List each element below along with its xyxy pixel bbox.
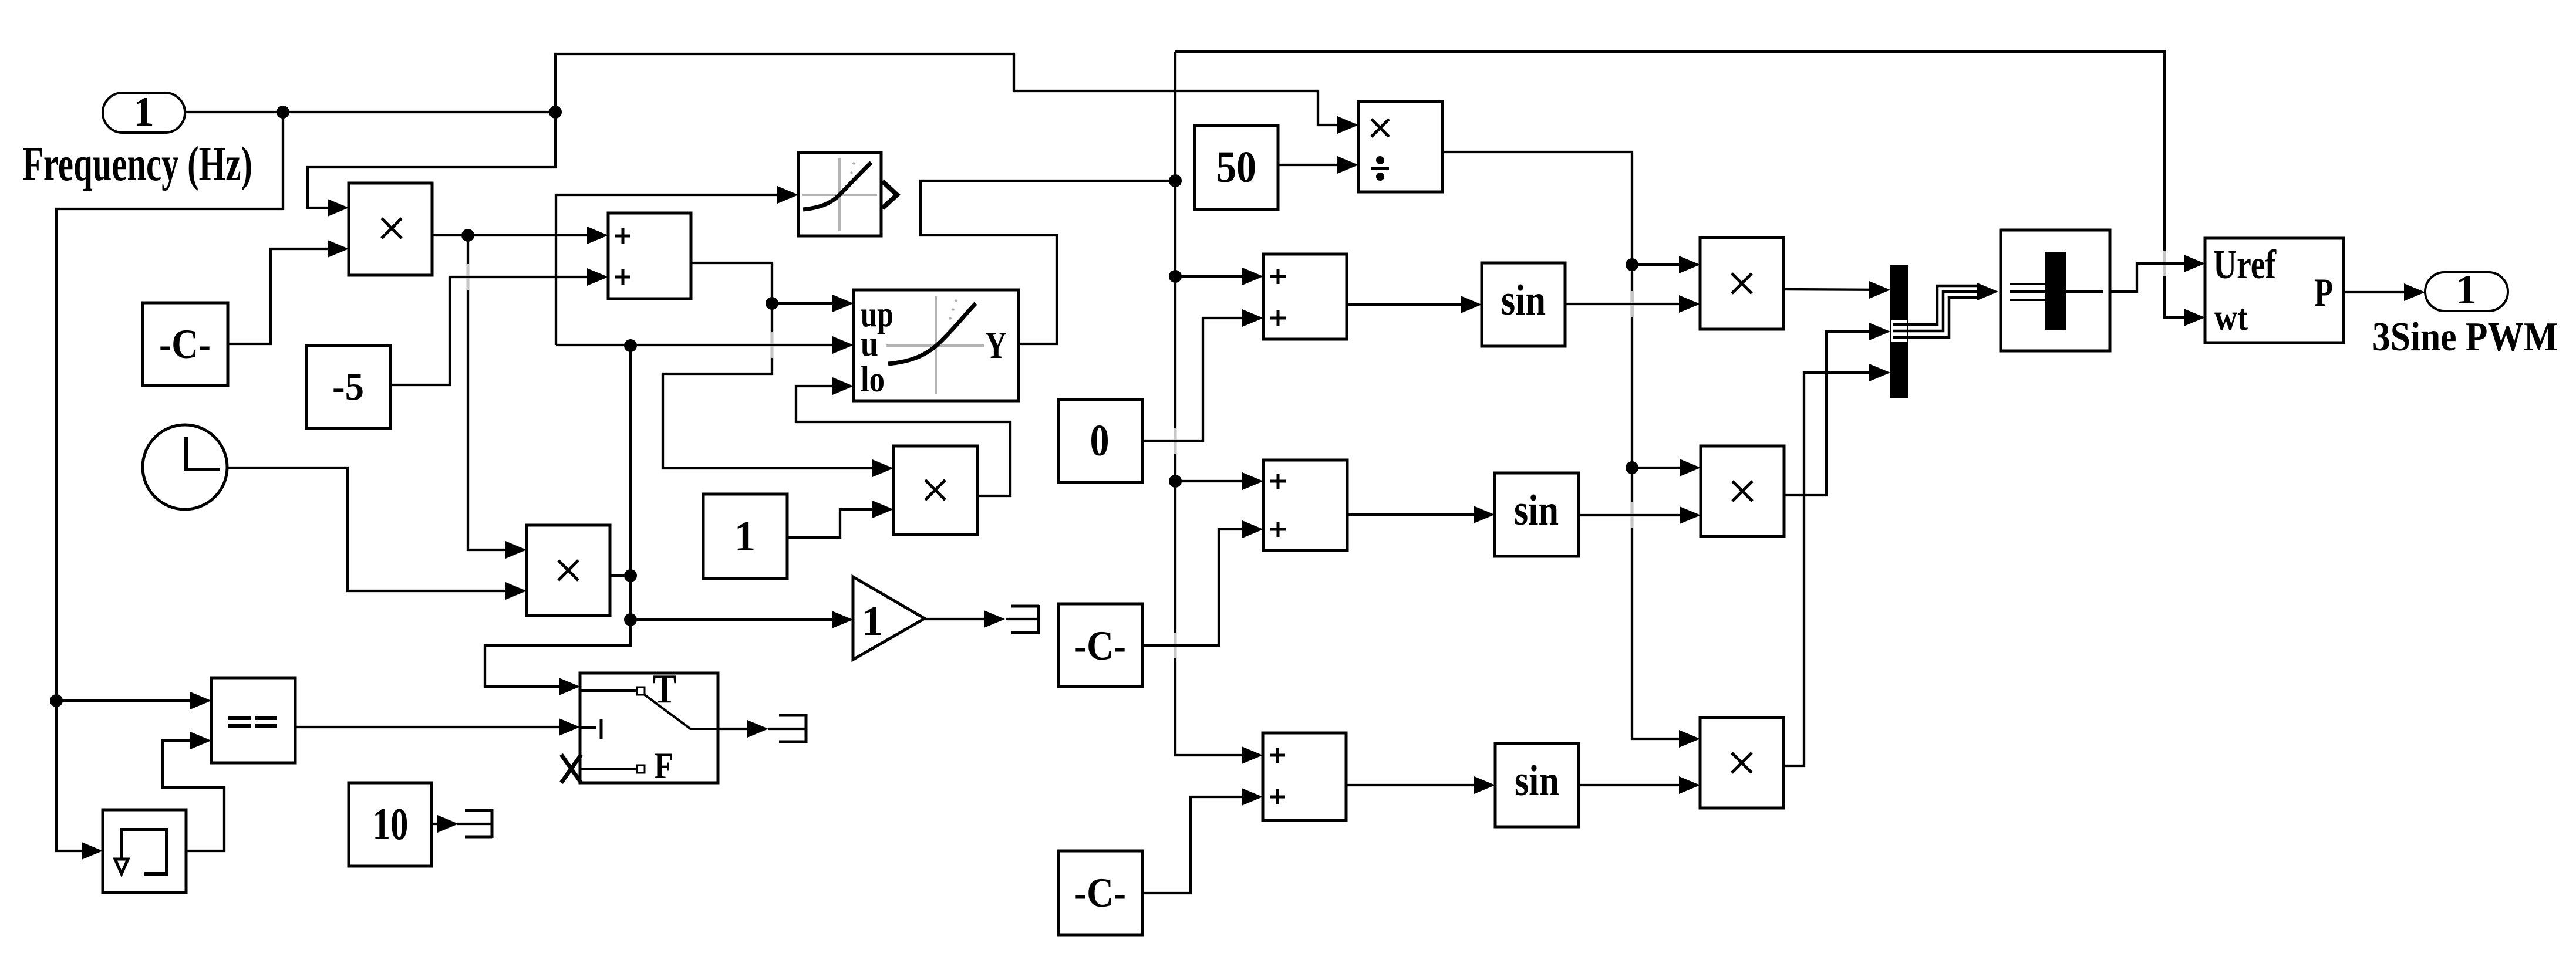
arrowhead into == in2	[190, 732, 211, 749]
constant -C- (modulation)	[143, 303, 228, 386]
svg-text:-C-: -C-	[1074, 870, 1126, 916]
product row2	[1701, 446, 1784, 536]
arrowhead into Product1 in1	[328, 199, 349, 217]
outport 1	[2425, 267, 2508, 313]
junction wt bus row1	[1169, 270, 1182, 283]
junction u node	[624, 339, 637, 352]
constant -5	[306, 346, 390, 428]
wire Product3 out loop to SaturationDynamic lo	[796, 386, 1010, 496]
wire subsystem P to outport	[2344, 291, 2422, 293]
arrowhead into gain terminator	[984, 610, 1005, 628]
arrowhead into Product1 in2	[328, 240, 349, 258]
terminator after switch	[779, 714, 806, 743]
wire wt bus vertical to Sum row3 in1	[1175, 52, 1260, 755]
arrowhead into Product3 in1	[872, 459, 893, 477]
product row1	[1700, 238, 1783, 329]
arrowhead into sin row3	[1474, 776, 1495, 794]
wire Sum row3 to sin row3	[1346, 784, 1492, 786]
wire sin row1 to Product row1 in2	[1565, 303, 1697, 305]
arrowhead into Sum row1 in2	[1242, 309, 1263, 327]
arrowhead into Mux in3	[1869, 364, 1890, 381]
wire Product row1 to Mux in1	[1783, 289, 1887, 290]
GAPS_START	[453, 251, 2180, 658]
arrowhead into SaturationDynamic u	[832, 336, 854, 354]
wire Memory out to == in2	[163, 741, 224, 851]
svg-text:wt: wt	[2214, 296, 2248, 338]
label 3Sine PWM	[2372, 315, 2558, 360]
wire Sum row1 to sin row1	[1347, 303, 1479, 306]
svg-text:lo: lo	[861, 360, 885, 400]
junction Product1 output	[461, 229, 474, 242]
terminator after gain	[1011, 605, 1039, 634]
wire u-node vertical down to Switch in1	[485, 345, 630, 687]
svg-text:u: u	[861, 324, 878, 364]
svg-text:-C-: -C-	[1074, 623, 1126, 669]
arrowhead into outport	[2404, 283, 2425, 301]
wire Product2 out to u-node	[610, 574, 630, 577]
clock	[143, 425, 227, 509]
wire Selector out to subsystem Uref	[2110, 263, 2202, 292]
junction left bus at ==	[50, 694, 63, 707]
arrowhead into sin row2	[1474, 506, 1495, 523]
arrowhead into Mux in2	[1869, 323, 1890, 340]
constant 0	[1058, 400, 1142, 482]
constant 10	[349, 783, 431, 866]
arrowhead into Sum row3 in1	[1242, 746, 1263, 764]
wire Sum row2 to sin row2	[1347, 513, 1492, 516]
junction gain branch	[624, 613, 637, 626]
arrowhead into subsystem Uref	[2184, 255, 2205, 272]
sum S1	[608, 213, 691, 299]
svg-text:1: 1	[133, 89, 154, 135]
arrowhead into Product row1 in2	[1679, 295, 1700, 313]
wire crossing fade at Product1 riser x -5 wire	[453, 264, 483, 290]
wire wt top route to subsystem wt port	[1175, 52, 2202, 317]
wire crossing fade at wt bus x -C-1 wire	[1160, 633, 1191, 658]
arrowhead into Mux in1	[1869, 281, 1890, 299]
product row3	[1700, 718, 1783, 808]
junction product bus row1	[1626, 258, 1638, 271]
saturation dynamic	[854, 290, 1019, 401]
wire frequency to Product1 in1	[308, 112, 555, 208]
ARROWS_START	[82, 116, 2425, 860]
wire frequency down left side to Memory/==	[56, 112, 283, 851]
junction frequency branch B	[549, 106, 562, 119]
mux output bus ribbon	[1891, 286, 1981, 342]
svg-text:1: 1	[734, 512, 756, 560]
arrowhead into subsystem wt	[2184, 309, 2205, 326]
product P2	[527, 525, 610, 616]
switch block	[561, 667, 718, 786]
saturation (small)	[798, 153, 897, 236]
subsystem 3-phase PWM generator	[2205, 238, 2344, 343]
svg-text:0: 0	[1090, 416, 1110, 465]
svg-text:10: 10	[373, 799, 409, 849]
svg-text:3Sine PWM: 3Sine PWM	[2372, 315, 2558, 360]
arrowhead into Product2 in2	[505, 582, 527, 600]
wire u-node to SaturationDynamic u port	[556, 344, 851, 346]
wire crossing fade at product bus x sin1 wire	[1617, 291, 1648, 317]
junction Product2 output	[624, 569, 637, 582]
arrowhead into ProductDiv in2	[1337, 156, 1358, 174]
arrowhead into ProductDiv in1	[1337, 116, 1358, 134]
svg-text:Y: Y	[985, 324, 1007, 367]
arrowhead into Product2 in1	[505, 541, 527, 559]
mux	[1890, 265, 1908, 398]
constant -C- phase c	[1058, 851, 1142, 935]
wire crossing fade at wt riser x Uref wire	[2149, 251, 2180, 276]
svg-text:-5: -5	[332, 365, 364, 408]
wire u-node branch to Gain input	[630, 618, 850, 621]
wire Constant 1 to Product3 in2	[787, 509, 891, 538]
constant 50	[1195, 126, 1278, 209]
svg-text:-C-: -C-	[159, 322, 211, 367]
arrowhead into 10 terminator	[437, 815, 458, 833]
constant 1	[703, 494, 787, 579]
arrowhead into Sum1 in1	[587, 227, 608, 244]
arrowhead into Product row3 in2	[1679, 776, 1700, 794]
wire Switch out to terminator	[718, 728, 765, 730]
wire ProductDiv branch to Product row1 in1	[1632, 263, 1697, 266]
wire crossing fade at product bus x sin2 wire	[1617, 502, 1647, 528]
arrowhead into switch terminator	[747, 720, 768, 738]
svg-text:1: 1	[2456, 267, 2477, 313]
wire Y output to wt bus	[921, 181, 1175, 344]
wire Product1 out branch to Product2 in1	[468, 235, 524, 550]
wire Sum1 out to up port and down branch to Product3 in1	[663, 263, 891, 468]
memory block	[103, 810, 186, 893]
relational operator ==	[211, 678, 295, 763]
wire Constant 0 to Sum row1 in2	[1142, 318, 1260, 441]
wire left bus to == in1	[56, 699, 208, 702]
product P1	[349, 183, 432, 275]
svg-text:sin: sin	[1501, 276, 1546, 324]
product P3	[893, 446, 977, 535]
wire sin row3 to Product row3 in2	[1579, 784, 1697, 786]
wire -C- 2 to Sum row3 in2	[1142, 797, 1260, 893]
wire -5 to Sum1 in2	[390, 277, 605, 385]
constant -C- phase b	[1058, 604, 1142, 687]
junction Sum1 output branch	[766, 297, 778, 310]
wire Product row3 to Mux in3	[1783, 373, 1887, 766]
svg-text:T: T	[653, 667, 676, 712]
wire Product row2 to Mux in2	[1784, 332, 1887, 495]
terminator after 10	[465, 809, 492, 838]
arrowhead into Product row3 in1	[1679, 730, 1700, 748]
wire ProductDiv out vertical to Product row3 in1	[1442, 152, 1697, 739]
arrowhead into Saturation input	[777, 186, 798, 204]
wire crossing fade at wt bus x 0 wire	[1160, 428, 1191, 454]
wire 10 to terminator	[431, 823, 455, 825]
gain 1	[853, 577, 925, 660]
arrowhead into Sum1 in2	[587, 268, 608, 286]
wire Frequency input to junction	[185, 111, 555, 113]
arrowhead into Sum row3 in2	[1242, 788, 1263, 806]
arrowhead into Product row2 in1	[1680, 459, 1701, 476]
arrowhead into Sum row1 in1	[1242, 268, 1263, 285]
svg-text:P: P	[2314, 270, 2333, 315]
arrowhead into Memory input	[82, 842, 103, 860]
junction wt bus row2	[1169, 475, 1182, 488]
junction frequency branch A	[277, 106, 289, 119]
wire Product1 out to Sum1 in1	[432, 234, 605, 236]
wire == out to Switch in2	[295, 726, 577, 728]
junction product bus row2	[1626, 461, 1638, 474]
wire wt bus branch to Sum row2 in1	[1175, 480, 1260, 482]
wire Clock to Product2 in2	[227, 468, 524, 591]
sum row1	[1263, 254, 1347, 339]
sin row1	[1482, 263, 1565, 346]
arrowhead into Switch in1	[559, 678, 580, 695]
sum row3	[1263, 733, 1346, 820]
arrowhead into Product row1 in1	[1679, 256, 1700, 273]
label Frequency (Hz)	[22, 137, 252, 191]
wire Gain out to terminator	[925, 618, 1002, 620]
wire crossing fade at Sum1 branch x u wire	[757, 332, 787, 358]
wire constant -C- to Product1 in2	[228, 249, 346, 344]
arrowhead into Product3 in2	[872, 501, 893, 518]
svg-text:50: 50	[1216, 143, 1256, 192]
wire Sum1 branch to SaturationDynamic up	[772, 302, 851, 305]
sum row2	[1263, 460, 1347, 550]
arrowhead mux bus to selector	[1977, 283, 1998, 300]
wire frequency top route to ProductDiv in1	[555, 54, 1356, 125]
arrowhead into Product row2 in2	[1680, 506, 1701, 524]
svg-text:Uref: Uref	[2213, 242, 2277, 288]
arrowhead into sin row1	[1461, 296, 1482, 313]
arrowhead into SaturationDynamic lo	[832, 377, 854, 395]
arrowhead into SaturationDynamic up	[832, 295, 854, 312]
DOTS_START	[50, 106, 1638, 707]
inport 1 Frequency	[103, 89, 185, 135]
wire sin row2 to Product row2 in2	[1579, 514, 1698, 516]
arrowhead into == in1	[190, 692, 211, 709]
svg-text:1: 1	[862, 599, 883, 644]
arrowhead into Switch in2	[559, 718, 580, 736]
wire u-node up and to small Saturation input	[556, 195, 795, 345]
svg-text:F: F	[654, 745, 673, 786]
sin row3	[1495, 743, 1579, 827]
arrowhead into Gain input	[832, 611, 853, 628]
arrowhead into Sum row2 in2	[1242, 520, 1263, 538]
sin row2	[1495, 473, 1579, 556]
svg-text:sin: sin	[1515, 757, 1559, 805]
wire -C- 1 to Sum row2 in2	[1142, 529, 1260, 645]
product divide	[1358, 102, 1442, 192]
wire ProductDiv branch to Product row2 in1	[1632, 467, 1698, 469]
wire 50 to ProductDiv in2	[1278, 164, 1356, 166]
selector block	[2001, 230, 2110, 351]
wire wt bus branch to Sum row1 in1	[1175, 275, 1260, 278]
junction Y joins wt bus	[1169, 174, 1182, 187]
svg-text:sin: sin	[1514, 486, 1559, 535]
arrowhead into Sum row2 in1	[1242, 472, 1263, 490]
svg-text:Frequency (Hz): Frequency (Hz)	[22, 137, 252, 191]
